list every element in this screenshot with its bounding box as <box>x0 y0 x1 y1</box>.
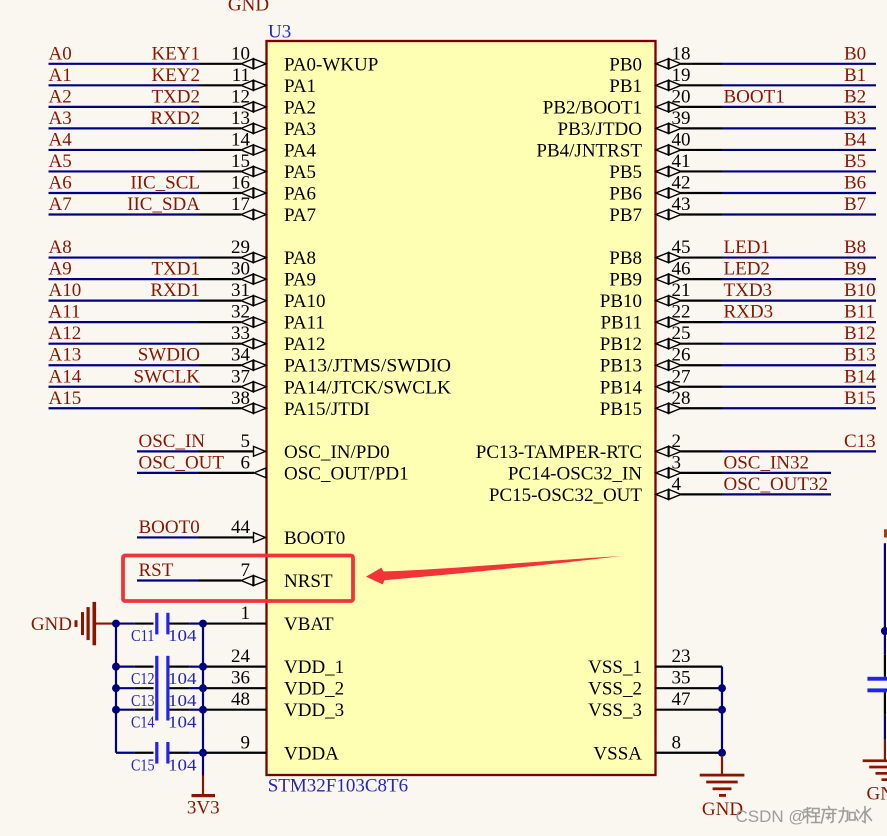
svg-text:OSC_IN: OSC_IN <box>139 431 206 452</box>
svg-text:A5: A5 <box>49 151 72 172</box>
svg-text:RXD2: RXD2 <box>150 108 200 129</box>
svg-text:A2: A2 <box>49 86 72 107</box>
svg-text:11: 11 <box>232 65 250 86</box>
svg-text:B13: B13 <box>844 345 876 366</box>
svg-text:PB9: PB9 <box>609 270 642 291</box>
svg-text:A13: A13 <box>49 345 82 366</box>
svg-text:20: 20 <box>672 86 691 107</box>
svg-text:8: 8 <box>672 732 682 753</box>
svg-text:14: 14 <box>231 129 251 150</box>
svg-text:PA11: PA11 <box>284 313 325 334</box>
svg-text:B1: B1 <box>844 65 866 86</box>
svg-text:104: 104 <box>168 691 197 710</box>
svg-text:18: 18 <box>672 43 691 64</box>
svg-text:10: 10 <box>231 43 250 64</box>
svg-text:PB10: PB10 <box>600 291 642 312</box>
svg-text:9: 9 <box>241 732 251 753</box>
svg-text:RST: RST <box>139 560 174 581</box>
svg-text:PA13/JTMS/SWDIO: PA13/JTMS/SWDIO <box>284 356 451 377</box>
svg-text:LED2: LED2 <box>724 259 770 280</box>
svg-text:PB6: PB6 <box>609 183 642 204</box>
svg-text:GND: GND <box>228 0 269 16</box>
svg-text:IIC_SDA: IIC_SDA <box>127 194 200 215</box>
svg-text:SWDIO: SWDIO <box>138 345 200 366</box>
svg-text:PA6: PA6 <box>284 183 316 204</box>
svg-text:27: 27 <box>672 366 691 387</box>
svg-text:104: 104 <box>168 669 197 688</box>
svg-text:B5: B5 <box>844 151 866 172</box>
svg-text:B7: B7 <box>844 194 866 215</box>
svg-text:1: 1 <box>241 603 251 624</box>
svg-text:6: 6 <box>241 452 251 473</box>
svg-text:PA1: PA1 <box>284 76 316 97</box>
svg-text:2: 2 <box>672 431 682 452</box>
svg-text:B4: B4 <box>844 129 867 150</box>
svg-text:VSS_1: VSS_1 <box>588 657 642 678</box>
svg-text:7: 7 <box>241 560 251 581</box>
svg-text:16: 16 <box>231 172 250 193</box>
svg-text:C12: C12 <box>131 669 155 688</box>
svg-text:PA4: PA4 <box>284 140 317 161</box>
svg-text:TXD1: TXD1 <box>151 259 200 280</box>
svg-text:VSS_2: VSS_2 <box>588 679 642 700</box>
svg-text:PB5: PB5 <box>609 162 642 183</box>
svg-text:B3: B3 <box>844 108 866 129</box>
svg-text:A12: A12 <box>49 323 82 344</box>
svg-text:12: 12 <box>231 86 250 107</box>
svg-text:25: 25 <box>672 323 691 344</box>
svg-text:PA15/JTDI: PA15/JTDI <box>284 399 370 420</box>
svg-text:104: 104 <box>168 755 197 774</box>
svg-text:31: 31 <box>231 280 250 301</box>
svg-text:PB4/JNTRST: PB4/JNTRST <box>536 140 642 161</box>
svg-text:PA0-WKUP: PA0-WKUP <box>284 54 378 75</box>
svg-text:46: 46 <box>672 259 691 280</box>
svg-text:37: 37 <box>231 366 250 387</box>
svg-text:A11: A11 <box>49 302 81 323</box>
svg-text:24: 24 <box>231 646 251 667</box>
svg-text:BOOT1: BOOT1 <box>724 86 785 107</box>
svg-text:PA12: PA12 <box>284 334 326 355</box>
svg-text:VDDA: VDDA <box>284 743 339 764</box>
svg-text:17: 17 <box>231 194 250 215</box>
svg-text:43: 43 <box>672 194 691 215</box>
svg-text:OSC_IN/PD0: OSC_IN/PD0 <box>284 442 390 463</box>
svg-text:OSC_IN32: OSC_IN32 <box>724 452 810 473</box>
svg-text:A4: A4 <box>49 129 73 150</box>
svg-text:KEY2: KEY2 <box>151 65 200 86</box>
svg-text:PA8: PA8 <box>284 248 316 269</box>
svg-text:BOOT0: BOOT0 <box>139 517 200 538</box>
svg-text:A0: A0 <box>49 43 72 64</box>
svg-text:VDD_1: VDD_1 <box>284 657 344 678</box>
svg-text:23: 23 <box>672 646 691 667</box>
svg-text:CSDN @: CSDN @ <box>736 807 806 826</box>
svg-text:C13: C13 <box>844 431 876 452</box>
svg-text:15: 15 <box>231 151 250 172</box>
svg-text:OSC_OUT: OSC_OUT <box>139 452 225 473</box>
svg-text:STM32F103C8T6: STM32F103C8T6 <box>268 776 408 797</box>
svg-text:PB13: PB13 <box>600 356 642 377</box>
svg-text:21: 21 <box>672 280 691 301</box>
svg-text:A3: A3 <box>49 108 72 129</box>
svg-text:A7: A7 <box>49 194 72 215</box>
svg-text:PB11: PB11 <box>600 313 642 334</box>
svg-text:13: 13 <box>231 108 250 129</box>
svg-text:PC15-OSC32_OUT: PC15-OSC32_OUT <box>489 485 642 506</box>
svg-text:PA14/JTCK/SWCLK: PA14/JTCK/SWCLK <box>284 377 451 398</box>
svg-text:104: 104 <box>168 626 197 645</box>
svg-text:PA7: PA7 <box>284 205 316 226</box>
svg-text:45: 45 <box>672 237 691 258</box>
svg-text:PB1: PB1 <box>609 76 642 97</box>
svg-text:35: 35 <box>672 668 691 689</box>
svg-text:NRST: NRST <box>284 571 333 592</box>
svg-text:30: 30 <box>231 259 250 280</box>
svg-text:VDD_3: VDD_3 <box>284 700 344 721</box>
svg-text:TXD3: TXD3 <box>724 280 773 301</box>
svg-text:B10: B10 <box>844 280 876 301</box>
svg-text:VBAT: VBAT <box>284 614 334 635</box>
svg-text:C14: C14 <box>131 712 155 731</box>
svg-text:RXD1: RXD1 <box>150 280 200 301</box>
svg-text:GND: GND <box>867 783 887 804</box>
svg-text:VSS_3: VSS_3 <box>588 700 642 721</box>
svg-text:VDD_2: VDD_2 <box>284 679 344 700</box>
svg-text:PB15: PB15 <box>600 399 642 420</box>
svg-text:OSC_OUT/PD1: OSC_OUT/PD1 <box>284 463 409 484</box>
svg-text:PC13-TAMPER-RTC: PC13-TAMPER-RTC <box>476 442 642 463</box>
svg-text:B8: B8 <box>844 237 866 258</box>
svg-text:104: 104 <box>168 712 197 731</box>
svg-text:KEY1: KEY1 <box>151 43 200 64</box>
svg-text:VSSA: VSSA <box>593 743 642 764</box>
svg-text:4: 4 <box>672 474 682 495</box>
svg-text:B9: B9 <box>844 259 866 280</box>
svg-text:19: 19 <box>672 65 691 86</box>
svg-text:38: 38 <box>231 388 250 409</box>
svg-text:41: 41 <box>672 151 691 172</box>
svg-text:A1: A1 <box>49 65 72 86</box>
svg-text:3V3: 3V3 <box>187 798 220 819</box>
svg-text:B15: B15 <box>844 388 876 409</box>
svg-text:C11: C11 <box>131 626 155 645</box>
svg-text:PB8: PB8 <box>609 248 642 269</box>
svg-text:40: 40 <box>672 129 691 150</box>
svg-text:B0: B0 <box>844 43 866 64</box>
svg-text:33: 33 <box>231 323 250 344</box>
svg-text:28: 28 <box>672 388 691 409</box>
svg-text:B6: B6 <box>844 172 866 193</box>
svg-text:U3: U3 <box>268 22 291 43</box>
svg-text:A9: A9 <box>49 259 72 280</box>
svg-text:PC14-OSC32_IN: PC14-OSC32_IN <box>508 463 642 484</box>
svg-text:A14: A14 <box>49 366 82 387</box>
svg-text:LED1: LED1 <box>724 237 770 258</box>
svg-text:IIC_SCL: IIC_SCL <box>130 172 200 193</box>
svg-text:B11: B11 <box>844 302 875 323</box>
svg-text:29: 29 <box>231 237 250 258</box>
svg-text:TXD2: TXD2 <box>151 86 200 107</box>
svg-text:B2: B2 <box>844 86 866 107</box>
svg-text:PB0: PB0 <box>609 54 642 75</box>
svg-text:34: 34 <box>231 345 251 366</box>
svg-text:B14: B14 <box>844 366 876 387</box>
svg-text:PB14: PB14 <box>600 377 643 398</box>
svg-text:A6: A6 <box>49 172 72 193</box>
svg-text:PA3: PA3 <box>284 119 316 140</box>
svg-text:PB2/BOOT1: PB2/BOOT1 <box>543 97 642 118</box>
svg-text:39: 39 <box>672 108 691 129</box>
svg-text:SWCLK: SWCLK <box>134 366 201 387</box>
svg-text:B12: B12 <box>844 323 876 344</box>
svg-text:PB7: PB7 <box>609 205 642 226</box>
svg-text:A10: A10 <box>49 280 82 301</box>
svg-text:PA10: PA10 <box>284 291 326 312</box>
svg-text:GND: GND <box>31 614 72 635</box>
svg-text:32: 32 <box>231 302 250 323</box>
svg-text:BOOT0: BOOT0 <box>284 528 345 549</box>
svg-text:PA5: PA5 <box>284 162 316 183</box>
svg-text:3: 3 <box>672 452 682 473</box>
svg-text:26: 26 <box>672 345 691 366</box>
svg-text:PB3/JTDO: PB3/JTDO <box>558 119 642 140</box>
svg-text:RXD3: RXD3 <box>724 302 774 323</box>
svg-text:36: 36 <box>231 668 250 689</box>
svg-text:PA2: PA2 <box>284 97 316 118</box>
svg-text:A8: A8 <box>49 237 72 258</box>
svg-text:A15: A15 <box>49 388 82 409</box>
svg-text:PB12: PB12 <box>600 334 642 355</box>
svg-text:5: 5 <box>241 431 251 452</box>
svg-text:C13: C13 <box>131 691 155 710</box>
svg-text:44: 44 <box>231 517 251 538</box>
svg-text:OSC_OUT32: OSC_OUT32 <box>724 474 829 495</box>
svg-text:42: 42 <box>672 172 691 193</box>
svg-text:47: 47 <box>672 689 691 710</box>
svg-text:PA9: PA9 <box>284 270 316 291</box>
svg-text:22: 22 <box>672 302 691 323</box>
svg-text:48: 48 <box>231 689 250 710</box>
svg-text:C15: C15 <box>131 755 155 774</box>
